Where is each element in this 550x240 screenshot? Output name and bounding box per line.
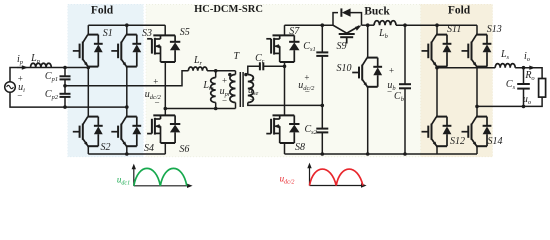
wire: right bottom rail	[285, 153, 478, 155]
junction Lm bottom / primary bottom	[214, 107, 218, 111]
diode of S9 (antiparallel above)	[333, 13, 338, 26]
IGBT S9 (series buck switch, rotated)	[333, 25, 347, 33]
wire: input bottom from source to leg B	[10, 92, 127, 107]
label: left Fold section title	[91, 5, 113, 17]
label: ui minus sign	[17, 91, 22, 100]
label: load resistor Ro	[525, 71, 534, 81]
capacitor Cs2	[316, 128, 328, 130]
right Fold panel background	[421, 4, 493, 157]
label: Buck section title	[364, 6, 390, 18]
label: switch S2	[101, 143, 111, 153]
label: ub minus sign	[387, 88, 392, 97]
transformer polarity dots	[228, 73, 231, 76]
wire: right bridge leg 1	[436, 67, 438, 117]
label: green waveform udc1	[117, 176, 130, 185]
output capacitor Cs	[517, 83, 530, 85]
transformer core	[239, 72, 241, 107]
wire: transformer primary stubs	[235, 71, 237, 75]
label: use plus sign	[250, 76, 255, 85]
node n - Cs1/Cs2 midpoint	[321, 104, 325, 108]
IGBT S3	[126, 25, 128, 34]
wire: S10 leg	[367, 25, 369, 57]
label: switch S11	[447, 25, 461, 35]
label: resonant capacitor Cr	[255, 54, 264, 64]
node p - leg S5/S6 midpoint	[164, 107, 168, 111]
green waveform axes	[133, 167, 135, 186]
buck inductor LS	[374, 21, 396, 25]
label: HC-DCM-SRC section title	[194, 5, 263, 16]
label: switch S6	[179, 145, 189, 155]
wire: left bottom rail	[88, 153, 165, 155]
left Fold panel background	[68, 4, 144, 157]
junction S10 emitter / bottom rail	[366, 152, 370, 156]
label: output voltage uo	[523, 95, 531, 105]
buck capacitor Cb	[399, 83, 411, 85]
wire: input top from source to leg A	[10, 68, 88, 82]
label: input voltage ui	[18, 83, 25, 93]
junction S3 collector / top rail	[125, 23, 129, 27]
wire: left top rail	[88, 24, 165, 26]
junction Cb / bottom rail	[403, 152, 407, 156]
label: udc/2 right plus sign	[304, 74, 309, 83]
IGBT S5	[164, 25, 166, 35]
label: ub plus sign	[389, 66, 394, 75]
label: resonant inductor Lr	[194, 56, 202, 66]
IGBT S7	[284, 25, 286, 35]
label: switch S14	[488, 137, 503, 147]
transformer T primary winding	[230, 75, 236, 103]
label: input current ip	[17, 55, 23, 65]
label: switch S1	[103, 29, 113, 39]
label: switch S9	[337, 42, 347, 52]
resonant capacitor Cr	[259, 62, 261, 70]
IGBT S12	[436, 116, 447, 118]
junction Cb / top rail	[403, 23, 407, 27]
capacitor Cp2	[60, 93, 71, 95]
IGBT S1	[87, 25, 89, 34]
label: buck capacitor Cb	[394, 92, 404, 102]
wire: Lr to transformer primary top	[207, 70, 235, 72]
label: switch S8	[295, 143, 305, 153]
wire: Cp1/Cp2 branch	[64, 68, 66, 77]
label: udc/2 left plus sign	[153, 78, 158, 87]
resonant inductor Lr	[188, 67, 207, 71]
HC-DCM-SRC panel background	[146, 4, 421, 157]
output inductor Ls	[495, 64, 515, 68]
current arrow io	[525, 67, 531, 69]
transformer T secondary winding	[248, 75, 254, 103]
label: magnetizing inductance Lm	[203, 81, 213, 91]
junction Cp2 bottom / input return	[63, 105, 67, 109]
junction S11 collector / top rail	[435, 23, 439, 27]
red half-sine waveform udc/2	[310, 169, 363, 185]
junction S10 / buck switch node	[366, 23, 370, 27]
IGBT S4	[126, 116, 137, 118]
wire: right top rail (S7 to S9)	[285, 24, 334, 26]
label: switch S13	[487, 25, 502, 35]
red waveform axes	[309, 166, 311, 186]
wire: output top from leg1 through Ls to load	[437, 67, 495, 69]
junction Cs2 / bottom rail	[321, 152, 325, 156]
junction Cs1 / top rail	[321, 23, 325, 27]
label: use minus sign	[250, 96, 255, 105]
IGBT S6	[153, 114, 175, 116]
label: upr minus sign	[222, 97, 227, 106]
label: capacitor Cs1	[303, 42, 315, 52]
wire: leg S5/S6 between switches	[164, 62, 166, 115]
node b - leg S3/S4 midpoint	[125, 105, 129, 109]
wire: buck capacitor Cb branch	[404, 25, 406, 84]
label: switch S10	[337, 64, 352, 74]
junction Cp1 top / input wire	[63, 66, 67, 70]
IGBT S11	[436, 25, 438, 34]
label: output inductor Ls	[501, 50, 509, 60]
wire: Cr to S7/S8 leg	[263, 65, 284, 67]
wire: leg B between switches	[126, 67, 128, 117]
label: inductor Lp	[31, 54, 40, 64]
label: ui plus sign	[18, 74, 23, 83]
load resistor Ro	[539, 79, 546, 98]
label: switch S7	[289, 27, 299, 37]
wire: S5/S6 leg midpoint to transformer primary bottom	[165, 108, 235, 110]
junction Cs bottom / output return	[522, 105, 526, 109]
label: output current io	[524, 52, 530, 62]
label: upr plus sign	[222, 76, 227, 85]
node s - leg S7/S8 midpoint	[283, 65, 287, 69]
label: buck inductor Lb	[379, 29, 388, 39]
wire: right top rail (S9 to S13)	[362, 24, 375, 26]
IGBT S8	[273, 114, 295, 116]
label: capacitor Cp2	[45, 90, 58, 100]
wire: right bridge leg 2	[476, 67, 478, 117]
junction Cs top / output wire	[522, 66, 526, 70]
wire: S7/S8 leg	[284, 62, 286, 115]
junction S4 emitter / bottom rail	[125, 152, 129, 156]
label: udc/2 right minus sign	[305, 88, 310, 97]
IGBT S2	[87, 116, 98, 118]
AC source ui	[5, 82, 16, 93]
wire: leg A between switches	[87, 67, 89, 117]
label: primary voltage upr	[220, 87, 231, 97]
wire: secondary top to Cr	[248, 66, 260, 74]
wire: Cs1/Cs2 branch	[321, 25, 323, 52]
capacitor Cs1	[316, 51, 328, 53]
label: switch S4	[144, 144, 154, 154]
label: secondary voltage use	[248, 86, 258, 96]
label: switch S5	[180, 28, 190, 38]
label: red waveform udc/2	[280, 175, 295, 184]
green half-sine waveform udc1	[134, 168, 187, 185]
junction Lm top / primary top	[214, 69, 218, 73]
label: capacitor Cp1	[45, 72, 58, 82]
inductor Lp	[31, 63, 52, 67]
node a - leg S1/S2 midpoint	[87, 66, 91, 70]
node d - leg S13/S14 midpoint	[475, 105, 479, 109]
label: udc/2 left minus sign	[154, 99, 159, 108]
label: voltage udc/2 right	[298, 81, 314, 91]
magnetizing inductance Lm	[215, 71, 217, 78]
capacitor Cp1	[60, 75, 71, 77]
wire: output filter cap Cs branch	[523, 68, 525, 84]
label: right Fold section title	[448, 5, 470, 17]
label: voltage udc/2 left	[145, 90, 161, 100]
label: capacitor Cs2	[304, 125, 316, 135]
label: switch S3	[142, 29, 152, 39]
wire: cap midpoint to resonant inductor Lr	[65, 71, 188, 86]
current arrow ip	[17, 67, 23, 69]
IGBT S13	[476, 25, 478, 34]
label: transformer T	[234, 52, 240, 62]
IGBT S14	[476, 116, 487, 118]
IGBT S10	[367, 57, 378, 59]
label: buck voltage ub	[387, 81, 395, 91]
node c - leg S11/S12 midpoint	[435, 66, 439, 70]
node m - Cp1/Cp2 midpoint	[63, 84, 67, 88]
label: switch S12	[450, 137, 465, 147]
label: output capacitor Cs	[506, 80, 515, 90]
wire: secondary bottom to Cs midpoint	[248, 103, 322, 106]
wire: output bottom from leg2 to load	[477, 97, 542, 106]
